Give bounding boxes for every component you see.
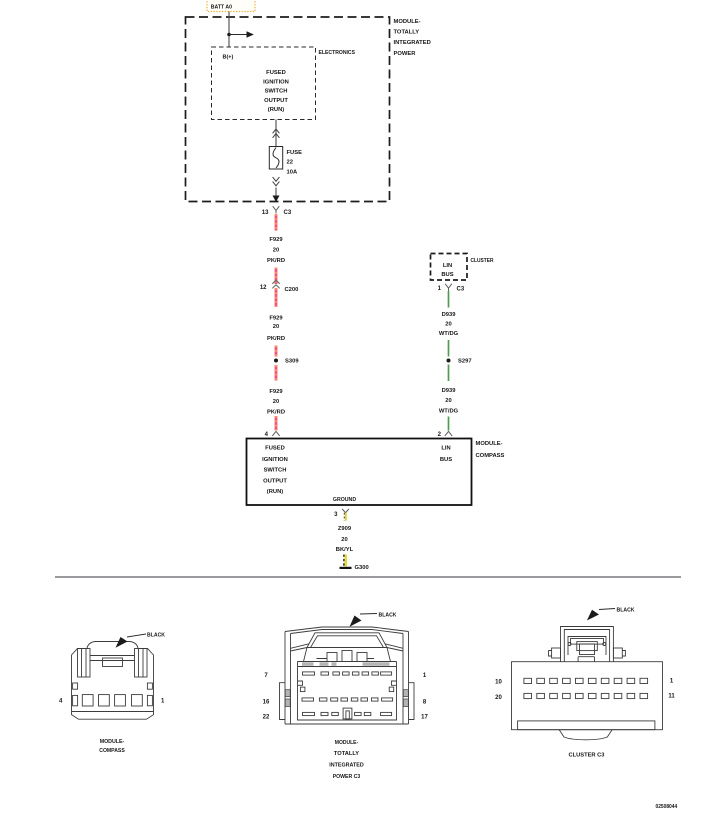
cluster connector pin cavities row 2: [524, 693, 648, 698]
ground G300: [340, 565, 369, 571]
connector face TIPM C3: [285, 627, 409, 720]
wire electronics to fuse: [275, 120, 277, 147]
wire D939 segment 3: [448, 365, 450, 382]
svg-text:IGNITION: IGNITION: [262, 457, 288, 463]
wire label F929 20 PK/RD (1): [267, 237, 285, 264]
svg-text:17: 17: [421, 715, 428, 721]
svg-text:13: 13: [262, 210, 269, 216]
svg-text:MODULE-: MODULE-: [476, 441, 503, 447]
svg-text:22: 22: [263, 715, 270, 721]
TIPM connector center keyway: [343, 708, 352, 719]
svg-text:(RUN): (RUN): [267, 489, 283, 495]
compass LIN BUS text: [440, 446, 452, 463]
svg-text:MODULE-: MODULE-: [100, 739, 125, 745]
svg-text:C200: C200: [285, 287, 299, 293]
svg-text:SWITCH: SWITCH: [264, 468, 287, 474]
wire F929 segment 1 (PK/RD): [275, 214, 278, 231]
TIPM connector shell right edge: [403, 632, 409, 683]
node junction dot on B+ wire: [227, 33, 231, 37]
compass pin 4 connector chevron: [265, 431, 280, 437]
wire F929 segment 3: [275, 288, 278, 307]
wire label F929 20 PK/RD (3): [267, 389, 285, 416]
svg-text:POWER: POWER: [394, 51, 417, 57]
compass connector left rail: [78, 649, 91, 678]
cluster connector rivet left: [568, 643, 571, 646]
inline connector C200 pin 12: [260, 280, 299, 293]
svg-text:F929: F929: [269, 389, 283, 395]
module TIPM outer dashed box: [186, 17, 390, 202]
svg-text:10: 10: [495, 680, 502, 686]
module compass box: [247, 439, 472, 506]
splice S297: [447, 359, 472, 365]
wire label D939 20 WT/DG (2): [439, 388, 459, 414]
compass connector pin cavity 1: [132, 695, 143, 706]
fused ignition switch output text (TIPM): [263, 70, 289, 113]
svg-text:BUS: BUS: [441, 272, 453, 278]
cluster connector rivet right: [603, 643, 606, 646]
TIPM connector bottom: [285, 723, 409, 725]
svg-text:F929: F929: [269, 316, 283, 322]
svg-text:FUSE: FUSE: [287, 150, 303, 156]
wire F929 segment 2: [275, 268, 278, 285]
TIPM connector caption: [329, 740, 364, 780]
svg-text:20: 20: [495, 695, 502, 701]
BLACK label (compass connector): [116, 633, 166, 648]
svg-text:12: 12: [260, 285, 267, 291]
svg-text:GROUND: GROUND: [333, 497, 356, 503]
svg-text:CLUSTER: CLUSTER: [471, 258, 495, 264]
cluster connector tower inner frame: [568, 637, 606, 656]
svg-text:BLACK: BLACK: [617, 607, 636, 613]
connector face MODULE-COMPASS: [72, 642, 154, 720]
TIPM connector dome skirt verticals: [304, 648, 391, 662]
svg-text:COMPASS: COMPASS: [99, 748, 125, 754]
TIPM connector inner body: [298, 662, 397, 721]
TIPM connector shell left edge: [285, 632, 291, 683]
svg-text:10A: 10A: [287, 170, 298, 176]
svg-text:FUSED: FUSED: [266, 70, 286, 76]
svg-text:PK/RD: PK/RD: [267, 410, 285, 416]
compass connector center latch: [103, 658, 123, 667]
battery feed label box BATT A0: [207, 0, 255, 12]
connector C3 pin 13 (TIPM): [262, 206, 292, 216]
module TIPM name label: [394, 19, 431, 57]
compass connector edge cavity lower left: [73, 695, 78, 705]
svg-text:COMPASS: COMPASS: [476, 453, 505, 459]
svg-text:BATT A0: BATT A0: [211, 5, 232, 11]
svg-text:INTEGRATED: INTEGRATED: [394, 40, 431, 46]
compass connector shell: [87, 642, 138, 649]
svg-text:CLUSTER C3: CLUSTER C3: [569, 753, 606, 759]
compass connector edge cavity upper right: [147, 683, 152, 689]
svg-text:LIN: LIN: [441, 446, 450, 452]
svg-text:S297: S297: [458, 359, 472, 365]
cluster dashed box: [431, 254, 468, 281]
svg-text:WT/DG: WT/DG: [439, 408, 459, 414]
svg-text:PK/RD: PK/RD: [267, 258, 285, 264]
svg-text:C3: C3: [284, 210, 292, 216]
TIPM connector wing hatch: [285, 690, 408, 707]
svg-text:G300: G300: [355, 565, 369, 571]
TIPM connector side latch left: [300, 687, 305, 692]
svg-text:IGNITION: IGNITION: [263, 79, 289, 85]
svg-text:20: 20: [273, 324, 279, 330]
cluster connector main body: [512, 662, 663, 730]
svg-text:BLACK: BLACK: [147, 633, 166, 639]
compass connector edge cavity upper left: [73, 683, 78, 689]
splice S309: [274, 359, 299, 365]
svg-text:BLACK: BLACK: [379, 612, 398, 618]
module compass name label: [476, 441, 505, 459]
TIPM connector shelf hatch blocks: [302, 662, 390, 666]
wire D939 segment 2: [448, 340, 450, 357]
TIPM connector left wing: [280, 683, 286, 720]
wire Z909 segment (BK/YL): [344, 555, 346, 567]
fuse 22 10A: [269, 147, 302, 176]
svg-text:D939: D939: [442, 388, 457, 394]
TIPM connector latch dome: [307, 633, 387, 648]
compass connector right rail: [135, 649, 148, 678]
compass connector pin cavity 2: [115, 695, 126, 706]
ground pin 3 connector: [334, 509, 349, 521]
arrow to other circuits: [229, 31, 254, 38]
TIPM connector pin slots row 2: [302, 698, 314, 701]
up chevrons on fuse wire: [273, 129, 280, 138]
compass pin 2 connector chevron: [438, 431, 453, 437]
svg-text:20: 20: [445, 321, 451, 327]
separator line: [55, 576, 681, 578]
svg-text:ELECTRONICS: ELECTRONICS: [319, 50, 356, 56]
wire F929 segment 6: [275, 416, 278, 431]
wire F929 segment 4: [275, 346, 278, 357]
wire label D939 20 WT/DG (1): [439, 312, 459, 337]
cluster connector bottom bump: [559, 730, 612, 740]
wire label F929 20 PK/RD (2): [267, 316, 285, 342]
svg-text:C3: C3: [457, 287, 465, 293]
svg-text:POWER C3: POWER C3: [333, 774, 361, 780]
TIPM connector pin slots row 3: [303, 712, 315, 715]
svg-text:OUTPUT: OUTPUT: [264, 98, 288, 104]
electronics inner dashed box: [212, 47, 316, 120]
svg-text:(RUN): (RUN): [268, 107, 284, 113]
down chevrons below fuse: [273, 177, 280, 186]
connector face CLUSTER C3: [512, 627, 663, 740]
cluster connector bottom inner rect: [518, 721, 655, 730]
BLACK label (TIPM connector): [350, 612, 398, 627]
TIPM connector side latch right: [389, 687, 394, 692]
TIPM connector top cap: [285, 627, 409, 632]
TIPM connector right wing: [409, 683, 415, 720]
svg-text:SWITCH: SWITCH: [265, 89, 288, 95]
TIPM connector shelf: [298, 661, 397, 663]
svg-text:20: 20: [273, 399, 279, 405]
wire fuse to connector C3 with arrowhead: [273, 188, 280, 203]
cluster connector bottom tab: [578, 657, 594, 662]
svg-text:PK/RD: PK/RD: [267, 336, 285, 342]
svg-text:02508044: 02508044: [656, 804, 678, 810]
cluster connector cross bar: [571, 639, 604, 645]
svg-text:Z909: Z909: [338, 526, 352, 532]
cluster LIN BUS text: [441, 263, 453, 278]
TIPM connector wedge right: [385, 644, 403, 651]
svg-text:TOTALLY: TOTALLY: [334, 751, 359, 757]
svg-text:MODULE-: MODULE-: [335, 740, 358, 746]
compass connector caption: [99, 739, 125, 754]
cluster connector latch tower: [561, 627, 614, 662]
svg-text:B(+): B(+): [223, 54, 234, 60]
cluster connector center block: [577, 642, 598, 651]
wire F929 segment 5: [275, 365, 278, 381]
compass connector top bar: [90, 655, 135, 657]
svg-text:S309: S309: [285, 359, 299, 365]
TIPM connector center posts: [327, 653, 337, 662]
TIPM connector pin slots row 1: [303, 672, 315, 675]
compass fused ignition switch output text: [262, 446, 288, 495]
svg-text:20: 20: [445, 398, 451, 404]
svg-text:LIN: LIN: [443, 263, 452, 269]
cluster connector side tab right: [613, 648, 622, 658]
svg-text:F929: F929: [269, 237, 283, 243]
svg-text:BUS: BUS: [440, 457, 452, 463]
BLACK label (cluster connector): [587, 607, 635, 620]
svg-text:WT/DG: WT/DG: [439, 331, 459, 337]
svg-text:22: 22: [287, 160, 293, 166]
svg-text:TOTALLY: TOTALLY: [394, 30, 420, 36]
svg-text:20: 20: [273, 248, 279, 254]
wire D939 segment 1 (WT/DG): [448, 291, 450, 308]
compass connector pin cavity 4: [82, 695, 93, 706]
svg-text:BK/YL: BK/YL: [336, 547, 354, 553]
TIPM connector wedge left: [291, 644, 310, 651]
cluster connector side tab left: [552, 648, 561, 658]
svg-text:D939: D939: [442, 312, 457, 318]
svg-text:FUSED: FUSED: [265, 446, 285, 452]
svg-text:11: 11: [668, 693, 675, 699]
svg-text:20: 20: [341, 537, 347, 543]
svg-text:16: 16: [263, 700, 270, 706]
wire D939 segment 4: [448, 417, 450, 431]
cluster connector pin cavities row 1: [524, 678, 648, 683]
compass connector pin cavity 3: [99, 695, 110, 706]
svg-text:MODULE-: MODULE-: [394, 19, 421, 25]
svg-text:OUTPUT: OUTPUT: [263, 479, 287, 485]
compass connector edge cavity lower right: [147, 695, 152, 705]
svg-text:INTEGRATED: INTEGRATED: [329, 763, 364, 769]
wire label Z909 20 BK/YL: [336, 526, 354, 553]
wire from BATT A0 into TIPM: [228, 12, 230, 48]
connector C3 pin 1 (cluster): [438, 284, 465, 293]
